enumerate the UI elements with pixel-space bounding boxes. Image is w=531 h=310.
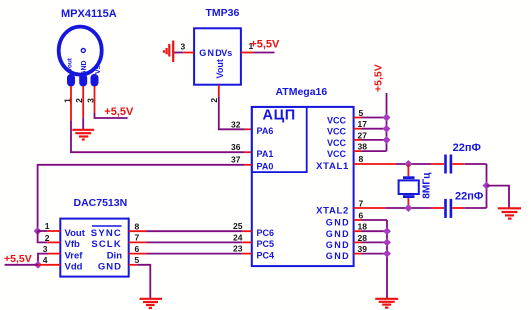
svg-text:6: 6 [135, 244, 140, 254]
svg-text:PA6: PA6 [257, 126, 274, 136]
svg-text:GND: GND [326, 229, 350, 239]
junction cap rail [483, 182, 491, 190]
junction GND pin18 [383, 227, 391, 235]
ground at TMP36 pin3 (sideways) [164, 41, 173, 63]
wire VCC pin5 stub (red) [354, 117, 362, 119]
wire crystal bottom lead (red) [407, 198, 409, 208]
svg-text:XTAL2: XTAL2 [316, 205, 349, 216]
wire C2 left lead (red) [431, 207, 444, 209]
wire +5,5V feed (purple) [5, 264, 38, 266]
svg-text:+5,5V: +5,5V [4, 253, 32, 265]
wire C2 right lead (red) [452, 207, 465, 209]
svg-text:22пФ: 22пФ [453, 142, 481, 154]
wire GND pin39 stub (red) [354, 253, 362, 255]
wire TMP36 pin1 power tail (purple) [254, 52, 275, 54]
wire DAC pin2 feedback loop (purple) [38, 231, 48, 242]
svg-text:2: 2 [209, 98, 219, 103]
svg-text:PC6: PC6 [257, 228, 275, 238]
svg-text:22пФ: 22пФ [455, 191, 483, 203]
junction XTAL1 crystal [404, 160, 412, 168]
wire PA1 pin stub (red) [245, 151, 252, 153]
svg-text:Vout: Vout [67, 57, 74, 72]
svg-text:Vs: Vs [221, 48, 232, 58]
wire GND pin18 stub (red) [354, 230, 362, 232]
svg-text:PA1: PA1 [257, 149, 274, 159]
wire GND pin39 (purple) [362, 253, 388, 255]
svg-text:38: 38 [358, 142, 368, 152]
wire GND pin6 (purple) [362, 219, 388, 221]
wire VCC pin38 stub (red) [354, 150, 362, 152]
svg-text:Vfb: Vfb [65, 239, 81, 250]
wire PC4 stub (red) [242, 253, 252, 255]
junction GND pin28 [383, 238, 391, 246]
svg-text:39: 39 [358, 244, 368, 254]
microcontroller U3 ATMega16 body [252, 107, 354, 266]
wire GND pin18 (purple) [362, 230, 388, 232]
svg-text:PC5: PC5 [257, 239, 275, 249]
wire XTAL2 net (purple) [385, 207, 431, 209]
svg-text:Vout: Vout [65, 228, 86, 239]
wire VCC pin17 stub (red) [354, 128, 362, 130]
ground at MPX pin2 [72, 130, 94, 140]
svg-text:GND: GND [326, 251, 350, 261]
svg-text:1: 1 [45, 221, 50, 231]
wire DAC pin3 stub (red) [48, 253, 61, 255]
junction XTAL2 crystal [404, 204, 412, 212]
svg-text:8: 8 [135, 222, 140, 232]
svg-text:8МГц: 8МГц [421, 172, 432, 199]
svg-text:+5,5V: +5,5V [104, 106, 134, 118]
junction GND pin39 [383, 250, 391, 258]
svg-text:3: 3 [43, 244, 48, 254]
wire C1 left lead (red) [431, 163, 444, 165]
wire DAC pin2 stub (red) [47, 241, 60, 243]
junction VCC pin27 [383, 136, 391, 144]
wire MPX pin1 lead (red) [70, 86, 72, 121]
wire VCC pin17 (purple) [362, 128, 387, 130]
wire C1 to cap rail (purple) [465, 163, 487, 165]
wire DAC pin1 (purple) [38, 230, 48, 232]
svg-text:+5,5V: +5,5V [250, 39, 280, 51]
svg-text:23: 23 [233, 244, 243, 254]
U3 pin name VCC x4 [327, 116, 347, 160]
svg-text:24: 24 [233, 232, 243, 242]
wire TMP36 pin2 to PA6 (purple) [219, 97, 245, 129]
wire DAC pin5 to ground (purple) [137, 265, 150, 298]
wire TMP36 pin3 to ground (purple) [174, 52, 183, 54]
wire crystal top lead (red) [407, 164, 409, 176]
svg-text:GND: GND [81, 60, 88, 76]
capacitor C2 22pF [444, 199, 452, 218]
svg-text:25: 25 [233, 221, 243, 231]
svg-text:Vdd: Vdd [65, 262, 83, 273]
wire cap rail vertical (purple) [486, 164, 488, 208]
wire MPX pin3 to +5.5V (purple) [95, 113, 128, 118]
svg-text:7: 7 [359, 199, 364, 209]
wire DAC pin3 loop to pin4 (purple) [38, 254, 48, 265]
wire PA0 pin stub (red) [245, 164, 252, 166]
wire DAC pin4 stub (red) [38, 264, 60, 266]
U4 pin name SYNC with overline [91, 226, 122, 239]
wire XTAL1 stub (red) [354, 163, 396, 165]
wire GND pin28 stub (red) [354, 241, 362, 243]
crystal X1 [399, 176, 419, 198]
wire DAC pin8 to PC6 (purple) [147, 230, 243, 232]
ground at DAC pin5 [140, 299, 163, 308]
wire VCC rail vertical (purple) [386, 93, 388, 151]
svg-text:Vs: Vs [95, 65, 102, 74]
svg-text:3: 3 [181, 42, 186, 52]
wire VCC pin27 (purple) [362, 139, 387, 141]
wire MPX pin3 lead (red) [94, 86, 96, 113]
DAC U4 DAC7513N body [60, 219, 128, 277]
svg-text:VCC: VCC [327, 116, 347, 126]
svg-text:8: 8 [359, 154, 364, 164]
svg-text:18: 18 [358, 222, 368, 232]
wire VCC pin38 (purple) [362, 150, 387, 152]
wire GND rail vertical (purple) [386, 220, 388, 298]
junction VCC pin17 [383, 125, 391, 133]
svg-text:Vref: Vref [65, 250, 84, 261]
wire MPX pin1 to PA1 (purple) [71, 121, 245, 152]
svg-text:MPX4115A: MPX4115A [61, 8, 117, 20]
svg-text:5: 5 [135, 255, 140, 265]
wire PA6 pin stub (red) [245, 128, 252, 130]
svg-text:+5,5V: +5,5V [373, 64, 385, 92]
wire cap rail to ground (purple) [487, 186, 510, 208]
wire DAC pin7 stub (red) [129, 241, 147, 243]
svg-text:GND: GND [326, 240, 350, 250]
wire GND pin28 (purple) [362, 241, 388, 243]
ground at ATMega GND rail [375, 299, 398, 308]
svg-text:PC4: PC4 [257, 250, 275, 260]
temperature sensor U2 TMP36 body [194, 28, 241, 84]
svg-text:GND: GND [199, 48, 223, 58]
svg-text:6: 6 [359, 211, 364, 221]
svg-text:VCC: VCC [327, 138, 347, 148]
svg-text:SYNC: SYNC [91, 228, 122, 239]
junction VCC pin5 [383, 114, 391, 122]
svg-text:GND: GND [326, 218, 350, 228]
wire C1 right lead (red) [452, 163, 465, 165]
wire VCC pin5 (purple) [362, 117, 387, 119]
svg-text:АЦП: АЦП [263, 108, 296, 124]
svg-text:VCC: VCC [327, 127, 347, 137]
wire MPX pin2 to ground (purple) [82, 117, 84, 129]
wire XTAL1 net (purple) [396, 163, 431, 165]
wire DAC pin5 stub (red) [129, 264, 137, 266]
wire MPX pin2 lead (red) [82, 86, 84, 117]
svg-text:VCC: VCC [327, 149, 347, 159]
wire PC5 stub (red) [242, 241, 252, 243]
wire DAC pin1 stub (red) [47, 230, 60, 232]
svg-text:GND: GND [98, 262, 122, 273]
svg-text:37: 37 [231, 155, 241, 165]
svg-text:PA0: PA0 [257, 161, 274, 171]
svg-text:32: 32 [231, 119, 241, 129]
wire PC6 stub (red) [242, 230, 252, 232]
svg-text:DAC7513N: DAC7513N [74, 197, 128, 209]
wire DAC Vout to PA0 vertical (purple) [38, 165, 245, 231]
svg-text:27: 27 [358, 130, 368, 140]
svg-text:TMP36: TMP36 [206, 7, 240, 19]
wire GND pin6 stub (red) [354, 219, 362, 221]
wire DAC pin6 to PC4 (purple) [147, 253, 243, 255]
svg-text:36: 36 [231, 142, 241, 152]
wire XTAL2 stub (red) [354, 207, 385, 209]
svg-text:7: 7 [135, 233, 140, 243]
wire TMP36 pin3 stub (red) [183, 52, 194, 54]
svg-text:17: 17 [358, 119, 368, 129]
pressure sensor U1 MPX4115A body [59, 27, 102, 87]
wire C2 to cap rail (purple) [465, 207, 487, 209]
svg-text:ATMega16: ATMega16 [276, 86, 328, 98]
junction +5,5V node at DAC [34, 261, 42, 269]
wire DAC pin8 stub (red) [129, 230, 147, 232]
capacitor C1 22pF [444, 155, 452, 174]
wire DAC pin7 to PC5 (purple) [147, 241, 243, 243]
svg-text:Vout: Vout [215, 59, 225, 78]
svg-text:Din: Din [107, 250, 123, 261]
wire TMP36 pin1 stub (red) [241, 52, 254, 54]
svg-text:4: 4 [43, 255, 48, 265]
svg-text:XTAL1: XTAL1 [316, 161, 349, 172]
ground at crystal caps [498, 208, 521, 218]
wire VCC pin27 stub (red) [354, 139, 362, 141]
junction DAC Vout node [34, 227, 42, 235]
svg-text:5: 5 [359, 108, 364, 118]
wire DAC pin6 stub (red) [129, 253, 147, 255]
wire TMP36 pin2 lead (red) [218, 85, 220, 97]
svg-text:SCLK: SCLK [91, 239, 122, 250]
svg-text:28: 28 [358, 233, 368, 243]
U3 ADC sub-block [252, 107, 307, 172]
U3 pin name GND x4 [326, 218, 350, 262]
